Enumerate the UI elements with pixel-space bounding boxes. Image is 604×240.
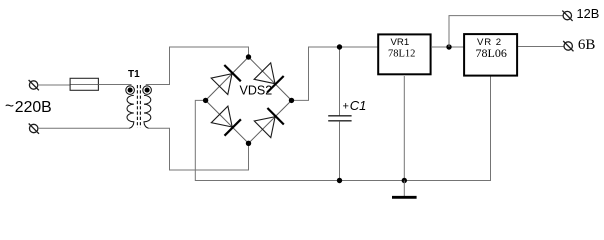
junction dot C1 bottom [337, 178, 342, 183]
wire VR1 out to VR2 in [432, 46, 464, 48]
terminal X2 bottom input [29, 124, 39, 134]
label ~220В [5, 98, 52, 116]
svg-text:78L12: 78L12 [388, 49, 415, 60]
wire VR2 out to 6V terminal [518, 46, 564, 48]
bridge rectifier VDS2 sides [206, 57, 292, 143]
junction dots bridge vertices [203, 54, 294, 146]
wire secondary top to bridge top [146, 47, 249, 85]
diode VD2 top-right [254, 63, 284, 93]
svg-text:VDS2: VDS2 [240, 84, 273, 98]
label +C1 [343, 98, 367, 113]
wire X1 to fuse [38, 84, 70, 86]
terminal X1 top input [29, 80, 39, 90]
svg-text:220В: 220В [15, 99, 52, 116]
regulator VR2 box [464, 34, 517, 76]
terminal 12V [562, 11, 572, 21]
junction dot 12V branch [446, 44, 451, 49]
svg-text:78L06: 78L06 [476, 46, 507, 60]
svg-text:6В: 6В [578, 37, 596, 53]
transformer T1 secondary polarity dot [145, 88, 150, 93]
diode VD4 bottom-right [254, 108, 283, 138]
terminal 6V [563, 41, 573, 51]
regulator VR1 box [378, 34, 430, 74]
junction dot C1 top [337, 44, 342, 49]
wire fuse to transformer primary [98, 84, 131, 86]
wire bridge left vertex to ground rail [195, 100, 339, 180]
capacitor C1 [328, 47, 351, 181]
junction dot gnd [402, 178, 407, 183]
diode VD1 top-left [211, 65, 241, 95]
wire X2 to transformer primary bottom [38, 127, 129, 129]
svg-text:C1: C1 [350, 98, 367, 113]
wire bridge right vertex to VR1 input [292, 47, 378, 100]
transformer T1 secondary winding [143, 86, 152, 128]
svg-text:T1: T1 [128, 69, 140, 80]
ground symbol [392, 181, 417, 198]
fuse FU1 [70, 78, 98, 90]
svg-text:VR1: VR1 [391, 37, 410, 48]
transformer T1 core [137, 85, 140, 128]
transformer T1 primary polarity dot [128, 88, 133, 93]
svg-text:~: ~ [5, 98, 14, 115]
wire secondary bottom to bridge bottom [148, 128, 248, 170]
wire to 12V terminal [449, 16, 563, 47]
svg-text:+: + [343, 101, 349, 113]
diode VD3 bottom-left [211, 106, 241, 136]
wire VR1 gnd to rail [403, 76, 405, 181]
ground rail [340, 77, 491, 181]
transformer T1 primary winding [126, 86, 135, 128]
svg-text:12В: 12В [577, 6, 600, 21]
